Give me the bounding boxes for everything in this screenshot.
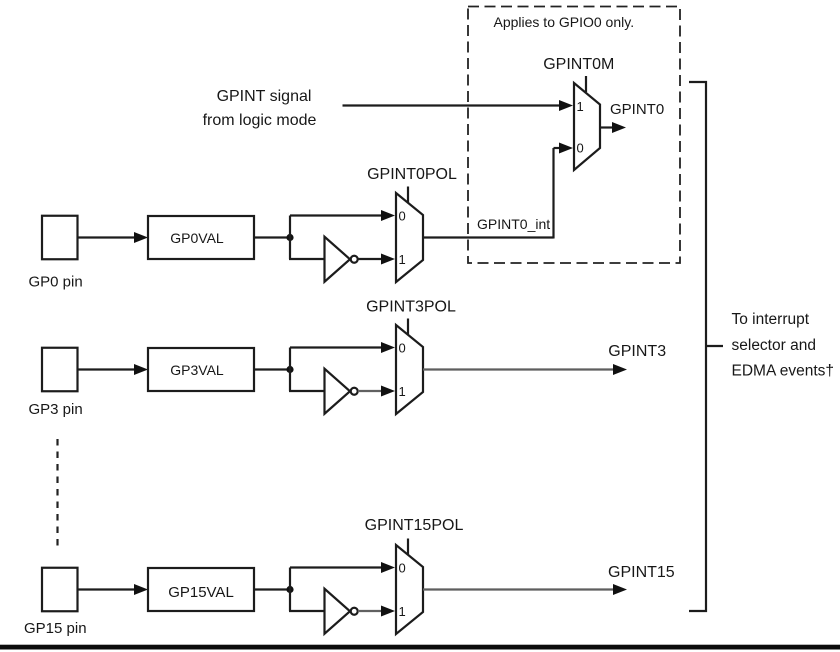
inverter row2 — [325, 369, 351, 414]
svg-text:EDMA events†: EDMA events† — [732, 363, 835, 380]
mux U1 GPINT0M — [574, 83, 600, 170]
inverter row3 — [325, 589, 351, 634]
svg-text:GPINT0_int: GPINT0_int — [477, 216, 550, 232]
wire: row2 bottom branch to inverter — [289, 390, 325, 392]
svg-text:GPINT0: GPINT0 — [610, 101, 664, 118]
wire: row1 inverter to mux input 1 — [358, 258, 381, 260]
wire: GP0VAL to junction — [254, 236, 290, 238]
wire: row3 inverter to mux input 1 (gray) — [358, 610, 381, 612]
svg-text:GPINT signal: GPINT signal — [217, 88, 312, 105]
mux GPINT15POL — [396, 545, 423, 634]
inverter row1 — [325, 237, 351, 282]
GP15 pin square — [42, 568, 78, 612]
register box GP3VAL — [148, 348, 254, 391]
junction node row3 — [286, 586, 293, 593]
wire: row3 bottom branch to inverter — [289, 610, 325, 612]
svg-text:GPINT0POL: GPINT0POL — [367, 166, 457, 183]
svg-text:GP3 pin: GP3 pin — [29, 401, 83, 418]
svg-text:1: 1 — [399, 252, 406, 267]
svg-text:1: 1 — [399, 604, 406, 619]
svg-text:GP15VAL: GP15VAL — [168, 584, 234, 601]
svg-text:0: 0 — [577, 141, 584, 156]
svg-text:GP0 pin: GP0 pin — [29, 274, 83, 291]
wire: GP3 pin to GP3VAL with arrow — [78, 368, 135, 370]
dashed region box "Applies to GPIO0 only." — [468, 7, 680, 264]
wire: GPINT3 output (gray) — [423, 368, 613, 370]
bracket mid tick — [706, 345, 723, 347]
svg-text:To interrupt: To interrupt — [732, 311, 810, 328]
dashed continuation line between GP3 and GP15 — [56, 439, 58, 546]
svg-text:GPINT0M: GPINT0M — [543, 56, 614, 73]
wire: GPINT15 output (gray) — [423, 588, 613, 590]
wire: GP3VAL to junction — [254, 368, 290, 370]
wire: junction vertical row3 — [289, 568, 291, 612]
svg-text:GPINT15POL: GPINT15POL — [365, 517, 464, 534]
svg-text:Applies to GPIO0 only.: Applies to GPIO0 only. — [494, 14, 635, 30]
wire: GP15VAL to junction — [254, 588, 290, 590]
svg-text:0: 0 — [399, 561, 406, 576]
svg-text:GPINT3: GPINT3 — [608, 343, 666, 360]
svg-text:0: 0 — [399, 341, 406, 356]
mux GPINT0POL select tick — [407, 187, 409, 203]
GP3 pin square — [42, 348, 78, 392]
wire: row2 inverter to mux input 1 (gray) — [358, 390, 381, 392]
svg-text:1: 1 — [577, 99, 584, 114]
bracket: to interrupt selector — [689, 82, 706, 611]
junction node row1 — [286, 234, 293, 241]
svg-text:GP3VAL: GP3VAL — [170, 362, 224, 378]
register box GP15VAL — [148, 568, 254, 611]
wire: row1 bottom branch to inverter — [289, 258, 325, 260]
svg-text:GP15 pin: GP15 pin — [24, 620, 87, 637]
register box GP0VAL — [148, 216, 254, 259]
wire: row1 top branch into mux input 0 — [290, 214, 381, 216]
wire: GPINT0_int from GPINT0POL mux output up to U1 input 0 — [423, 236, 554, 238]
wire: junction vertical row2 — [289, 348, 291, 392]
junction node row2 — [286, 366, 293, 373]
svg-text:GPINT15: GPINT15 — [608, 564, 675, 581]
wire: GPINT0 output arrow — [600, 126, 612, 128]
svg-text:1: 1 — [399, 384, 406, 399]
wire: junction vertical row1 — [289, 216, 291, 260]
mux GPINT15POL select tick — [407, 539, 409, 555]
wire: row3 top branch into mux input 0 — [290, 566, 381, 568]
mux GPINT3POL — [396, 325, 423, 414]
wire: row2 top branch into mux input 0 — [290, 346, 381, 348]
svg-text:0: 0 — [399, 209, 406, 224]
wire: GP15 pin to GP15VAL with arrow — [78, 588, 135, 590]
GP0 pin square — [42, 216, 78, 260]
svg-text:GPINT3POL: GPINT3POL — [366, 299, 456, 316]
wire: GPINT signal into mux U1 input 1 — [343, 104, 561, 106]
svg-text:from logic mode: from logic mode — [203, 112, 317, 129]
svg-text:GP0VAL: GP0VAL — [170, 230, 224, 246]
mux U1 select tick — [585, 76, 587, 92]
svg-text:selector and: selector and — [732, 337, 816, 354]
mux GPINT3POL select tick — [407, 319, 409, 335]
bottom rule bar — [0, 645, 840, 650]
wire: GP0 pin to GP0VAL with arrow — [78, 236, 135, 238]
mux GPINT0POL — [396, 193, 423, 282]
